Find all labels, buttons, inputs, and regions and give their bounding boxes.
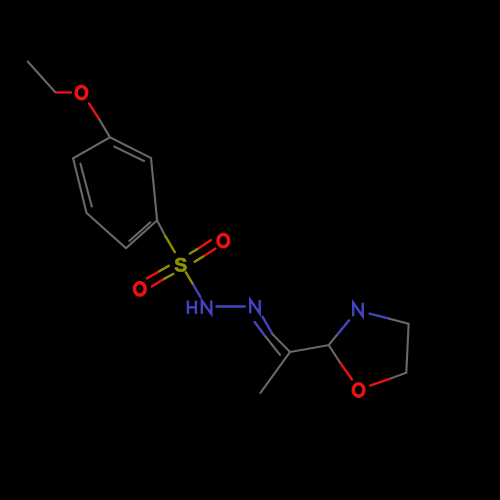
S=O upper double bond line 1 red half	[199, 240, 211, 248]
benzene ring inner double E-F	[80, 164, 91, 207]
N=C double bond offset line gray half	[266, 337, 280, 355]
atom label O sulfonyl lower	[135, 283, 146, 295]
atom label H of HN	[188, 301, 196, 314]
N=C double bond main line gray half	[273, 334, 291, 352]
wire ring C to S gray half	[157, 220, 165, 236]
S=O lower double bond line 1 olive half	[158, 266, 169, 272]
wire O1 to C2 red half	[340, 362, 352, 379]
wire C4 to C5	[406, 324, 408, 373]
benzene ring inner double A-B	[114, 147, 144, 161]
wire O to ring red half	[89, 103, 99, 119]
wire ring C to S olive half	[165, 236, 174, 252]
atom label N of HN	[202, 301, 212, 314]
S=O upper double bond line 1 olive half	[190, 248, 199, 254]
atom label O oxazolidine	[353, 384, 364, 396]
wire N3 to C4 gray half	[389, 319, 409, 324]
wire NH to N single bond	[217, 305, 245, 307]
wire O1 to C2 gray half	[329, 345, 340, 362]
wire S to NH blue half	[193, 285, 200, 297]
S=O upper double bond line 2 olive half	[195, 256, 205, 262]
wire S to NH olive half	[186, 272, 194, 285]
svg-text:S: S	[174, 254, 187, 276]
atom label O sulfonyl upper	[218, 234, 229, 246]
wire O to ring gray half	[99, 120, 110, 138]
S=O lower double bond line 1 red half	[147, 272, 158, 278]
wire C2 to N3 gray half	[329, 334, 338, 345]
wire C5 to O1 red half	[370, 379, 388, 385]
atom label N hydrazone	[250, 300, 260, 313]
benzene ring inner double C-D	[129, 222, 150, 241]
benzene ring edge F-A	[73, 137, 110, 158]
atom label O methoxy	[76, 86, 87, 98]
benzene ring edge A-B	[110, 137, 151, 158]
S=O upper double bond line 2 red half	[205, 249, 216, 256]
benzene ring edge C-D	[126, 220, 157, 248]
wire C8 to ring C2	[290, 345, 329, 352]
S=O lower double bond line 2 olive half	[163, 274, 174, 280]
wire C2 to N3 blue half	[338, 320, 349, 333]
S=O lower double bond line 2 red half	[152, 280, 163, 287]
wire C5 to O1 gray half	[389, 373, 407, 380]
wire methyl C to O (methoxy CH3 bond, gray half)	[28, 62, 56, 93]
benzene ring edge E-F	[73, 158, 86, 213]
benzene ring edge D-E	[87, 213, 127, 248]
wire O-methyl red half	[57, 91, 72, 93]
atom label N oxazolidine	[353, 303, 363, 316]
wire N3 to C4 blue half	[370, 314, 390, 319]
wire C8 to methyl	[260, 352, 290, 393]
N=C double bond main line blue half	[263, 317, 273, 335]
benzene ring edge B-C	[151, 158, 157, 220]
N=C double bond offset line blue half	[255, 322, 266, 337]
